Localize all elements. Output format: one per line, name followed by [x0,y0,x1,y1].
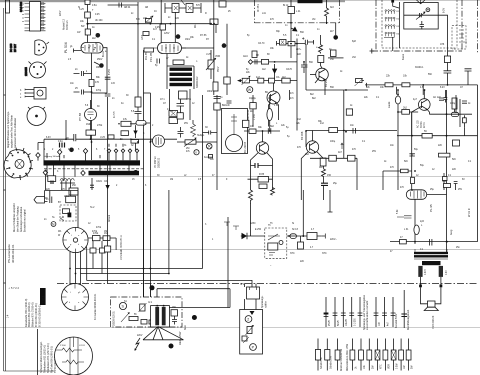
svg-text:BC 238: BC 238 [10,43,13,52]
wire diamond stubs [38,143,86,161]
capacitor C405 [397,216,412,218]
volume coil [395,96,400,104]
wire x357 stub [356,158,358,190]
wire y114 [430,113,473,115]
switch bottom contacts [269,253,275,256]
hang resistor [300,236,302,242]
svg-text:B 310 811 (3030-01): B 310 811 (3030-01) [34,303,38,327]
page border double line left [4,8,6,371]
cap C211 [465,69,472,85]
tuner inner dashed box [382,0,457,48]
mains wedge triangle [143,327,184,340]
osc capacitor [420,21,425,29]
panel small box [242,336,247,341]
svg-text:25µ: 25µ [333,183,338,185]
capacitor C210 [444,71,452,85]
T marks [224,222,239,230]
svg-text:OA81: OA81 [96,180,103,183]
svg-text:OA 70: OA 70 [258,42,265,45]
tiny values text [75,26,100,90]
table lower rotated rows [39,341,57,373]
resistor R111 [210,19,218,24]
svg-text:14 Schaltb. 30300-05.11: 14 Schaltb. 30300-05.11 [120,234,123,260]
wire socket down-left [70,251,81,296]
wire stubs Rj [93,241,102,274]
svg-text:DY 86: DY 86 [200,35,207,37]
ref mark 14 [96,33,101,38]
resistor R303 [249,129,256,133]
wire collector up [321,35,323,68]
test diamond e [81,171,85,176]
winding W1 [288,7,295,14]
resistor on x227 [224,77,230,84]
svg-text:25V: 25V [372,151,377,153]
svg-text:10µ: 10µ [252,98,257,100]
wire x116 [115,238,117,250]
switch arm [268,234,278,240]
circled W [247,87,253,93]
svg-text:1k5: 1k5 [175,17,180,20]
resistor R130 [48,176,56,182]
svg-text:470: 470 [95,81,100,84]
svg-text:für Geräte 30300-019.01: für Geräte 30300-019.01 [94,293,97,320]
capacitor C203 [255,59,257,64]
svg-text:Änderungen vorbehalten.: Änderungen vorbehalten. [20,206,23,232]
diode D201 [291,28,297,31]
wire loop right [157,289,230,308]
legend cap 3 [341,297,348,327]
wire stubs below bar [45,166,64,191]
varactor [416,13,425,20]
legend resistor 6 [367,339,375,371]
svg-text:Ablenk: Ablenk [108,214,111,222]
wire PY88 anode [90,100,92,139]
svg-text:BF 237: BF 237 [14,43,17,52]
wire x412 [411,112,413,190]
svg-text:150: 150 [327,174,332,177]
relay coil [63,209,70,214]
ref mark M2 [133,170,138,175]
legend resistor 4 [350,339,358,371]
relay black slug [68,213,72,218]
node audio [343,130,345,132]
box on damper line [105,246,111,252]
wire x343 [343,90,345,158]
svg-text:BF 458: BF 458 [300,131,304,140]
rotated annotation text column [7,111,17,148]
svg-text:P 300: P 300 [60,345,66,347]
capacitor C124 [203,131,218,135]
wire x383 [382,171,384,190]
svg-text:Si 0.8: Si 0.8 [292,229,299,231]
tube pinout circle B [62,284,89,311]
right border dash-dot [477,0,479,53]
svg-text:Telefunken 871 (2971-01): Telefunken 871 (2971-01) [46,343,50,373]
pot arrow [121,313,129,322]
pcb boundary dashed [44,168,145,170]
tuner oscillator box [404,3,438,30]
svg-text:30300-019.01: 30300-019.01 [11,244,15,263]
channel contacts row3 [385,25,395,29]
resistor R408 [400,240,407,244]
svg-text:AGC: AGC [243,55,248,58]
svg-text:Dieser Schaltplan entspricht: Dieser Schaltplan entspricht [13,203,16,232]
svg-text:Helligk.: Helligk. [197,135,205,137]
resistor R304c [259,184,267,189]
AGC pot row y80.6 [240,80,297,82]
svg-text:5k/25: 5k/25 [338,320,340,326]
diode in panel [250,311,255,315]
long vertical x202 [202,190,204,269]
wire pin stubs [109,144,137,161]
wire cathode down [91,53,93,160]
legend resistor 2 [325,339,333,371]
svg-text:L 31: L 31 [404,229,409,231]
trimmer arrow top [181,0,185,5]
resistor Rj2 [100,248,106,253]
oval fuse [290,234,296,239]
stub above bar [47,153,100,158]
legend cap 8 [391,297,398,328]
selector top box [247,287,260,299]
selector box marks [250,287,257,290]
svg-text:Schwarz-Weiß-Fernsehger.: Schwarz-Weiß-Fernsehger. [39,341,43,373]
svg-text:1200: 1200 [142,34,144,40]
junction row [60,181,75,191]
svg-text:dem Stand der Fertigung.: dem Stand der Fertigung. [17,206,20,232]
resistor R406 [401,169,409,173]
resistor R123b [131,140,139,144]
wire y43.6 [277,39,298,131]
resistor R603 [171,310,178,316]
svg-text:2k2: 2k2 [403,107,408,110]
winding left [418,266,422,277]
capacitor C403 [442,173,446,190]
circled 2 [245,316,252,323]
svg-text:1 Vss: 1 Vss [254,113,256,120]
selector panel [240,310,263,355]
wire grid lead left [74,49,82,53]
fuse box top [85,0,90,5]
svg-text:PL 504: PL 504 [64,42,68,53]
capacitor C103 [74,71,92,76]
vertical x412 lower stub [411,154,413,156]
resistor R502 [92,236,100,241]
wire x306 [305,44,307,90]
svg-text:PL 95: PL 95 [429,204,433,212]
resistor R101 [85,12,91,18]
coil box [318,56,324,63]
contact labels [397,11,400,36]
long vertical x169 [168,190,170,274]
vertical x228 [227,217,229,308]
texture labels quadrant1 [44,4,250,191]
ecap C127 [51,181,53,185]
ref mark 15 [99,63,104,68]
corner dashed box [452,26,466,50]
svg-text:8k2: 8k2 [270,125,275,128]
svg-text:Schicht 5%: Schicht 5% [320,358,323,370]
resistor R407 [411,177,415,183]
wire link [92,92,108,94]
test diamond a2 [58,150,62,155]
svg-text:S 25: S 25 [79,9,84,11]
fold line horizontal upper [0,176,480,178]
wires into box top [144,284,158,298]
svg-text:0.5A: 0.5A [92,4,97,7]
paper edge shading top [0,0,480,2]
bus y135.7 [397,135,478,137]
diode D202 [274,64,276,81]
resistor R202 [288,42,295,46]
svg-text:25µ: 25µ [430,189,435,191]
zigzag R312 [322,166,326,179]
svg-text:180k: 180k [207,91,213,93]
scatter labels upper left [46,5,231,187]
TO-220 package view [20,88,46,100]
switch coil box [268,243,278,250]
wire tube to transformer [166,54,168,67]
legend resistor 9 [391,339,398,371]
selector wires [245,269,257,310]
svg-text:100µ: 100µ [330,141,336,143]
capacitor C123 [177,99,185,113]
legend resistor 3 [335,339,343,372]
svg-text:AT 1: AT 1 [160,98,165,101]
end arrow [321,234,325,239]
speaker cone [424,307,438,310]
svg-text:B 250: B 250 [109,68,111,75]
thermistor R116 [213,82,218,91]
main dash-dot bus [57,283,478,285]
transistor Q5 sync [267,91,280,104]
wire after box [287,235,322,237]
wire x289 [289,90,291,100]
svg-text:Fo 5.5: Fo 5.5 [114,111,116,118]
node boost rail [87,23,89,25]
wire ref stub [335,23,337,35]
coil box right [452,98,457,109]
svg-text:Spannungs- und Toleranzangaben: Spannungs- und Toleranzangaben [363,294,366,330]
vertical wire x150 lower [149,93,151,190]
long vertical x150 [149,190,151,297]
svg-text:470p: 470p [96,90,102,92]
svg-text:U 25: U 25 [206,54,212,56]
resistor R110 [160,24,166,30]
wire bus y139 [44,138,177,140]
svg-text:St 1: St 1 [240,283,245,286]
tiny values [44,110,208,158]
resistor R103 [89,80,94,87]
wire x66 [65,120,67,139]
transistor pinout view Q-b [29,62,47,79]
corner box top right [219,1,226,7]
black model label [40,288,46,305]
svg-text:U 191: U 191 [79,345,86,347]
node [296,43,298,45]
diode D120 [135,128,137,138]
svg-text:220: 220 [143,17,148,20]
tube socket top view [4,148,33,180]
wire emitter down [315,78,325,95]
socket pin labels [70,235,80,246]
winding bar right [162,307,166,326]
box lower [69,188,78,195]
svg-text:250V: 250V [97,59,103,61]
node [447,84,449,86]
resistor R206c [282,78,290,83]
wire varistor [210,50,212,79]
transistor Q4 audio [419,99,431,111]
ecap C305 [321,183,328,185]
wire coil [269,95,271,131]
svg-text:220V: 220V [60,10,62,16]
svg-text:0.5W: 0.5W [397,363,399,369]
svg-text:RG: RG [195,24,197,28]
scatter labels upper right [246,13,472,191]
wire boost right end [215,24,217,33]
relay zigzag [60,216,63,221]
capacitor C301 [268,128,271,134]
svg-text:Bildrohr: Bildrohr [222,104,230,107]
zigzag x250 [249,190,253,204]
connector plug [34,197,48,204]
resistor Rj1 [90,248,96,253]
fold line horizontal lower [0,327,480,329]
svg-text:Telefunken 811 (2021-0): Telefunken 811 (2021-0) [43,345,47,373]
svg-text:0.3A: 0.3A [58,140,63,143]
legend resistor 7 [375,339,382,371]
long vertical x143 [143,190,145,297]
resistor R115 [173,60,184,65]
scatter labels lower [44,209,461,267]
wire x138 [118,119,150,151]
resistor R113 [143,32,149,36]
corner box marks [459,30,467,42]
svg-text:16kV: 16kV [185,39,191,41]
svg-text:NTC: NTC [381,364,383,369]
resistor R302 [243,120,249,127]
resistor R122 [121,121,131,126]
zigzag collector feed [319,45,323,54]
wire Q2 legs [301,152,322,201]
svg-text:Gl 1: Gl 1 [148,302,153,304]
capacitor C501 [50,197,52,204]
svg-text:W 31 R: W 31 R [467,208,471,217]
svg-text:4k7: 4k7 [338,151,343,154]
svg-text:350V: 350V [218,66,220,72]
capacitor C110 [119,3,122,8]
wire vertical x161 [160,0,162,43]
svg-text:Ub 230: Ub 230 [95,20,103,22]
border tick marks [4,95,6,283]
tube PL95 [406,190,426,200]
svg-text:25V: 25V [458,189,463,191]
rotated text PS-Leiterseite [7,244,15,263]
resistor R206a [258,78,264,83]
capacitor C303 [353,128,356,134]
svg-text:L 52: L 52 [274,105,279,107]
coil L401 [414,225,419,235]
resistor R601 [307,233,317,240]
svg-text:0.43: 0.43 [446,270,448,275]
lightning bolt [135,338,140,350]
tiny text [250,125,343,177]
AGC diamond [248,60,252,65]
svg-text:470k: 470k [186,99,192,101]
resistor R210 [444,56,450,63]
wire B+ vertical feed [87,0,89,43]
svg-text:22.31: 22.31 [424,122,426,128]
zigzag resistor R201 [325,3,329,24]
legend resistor 5 [359,339,366,371]
pot R205 [242,76,251,85]
capacitor C121 [135,107,142,119]
legend resistor 8 [383,339,391,371]
svg-text:OA: OA [104,180,108,183]
channel contacts row4 [384,32,395,37]
audio bus y130.5 [306,130,397,132]
wire y93 stub [144,92,151,94]
resistor R123 [121,131,129,136]
svg-text:470k: 470k [96,227,102,229]
heater circle C [55,337,93,375]
vertical wire x217 [216,95,218,190]
wire IF vertical [290,0,292,58]
box below lamp [209,155,213,159]
plus sign [302,37,304,39]
speaker body [428,301,436,307]
alignment head circle [27,107,46,126]
node base [262,130,264,132]
zigzag resistor R125 [191,124,196,137]
power dash-dot box [111,297,182,327]
svg-text:wähler: wähler [265,301,268,308]
ref mark M [69,148,74,153]
wire Q5 legs [269,83,279,127]
node bus [90,138,92,140]
wire Q2 base [305,131,307,148]
resistor mid-right [453,140,460,146]
svg-text:AC 122: AC 122 [433,96,441,99]
oval resistor R123c [136,121,146,126]
small parts [141,320,147,325]
svg-text:E 250: E 250 [255,229,262,231]
svg-text:25/25: 25/25 [329,320,331,326]
wire x323 bottom [323,179,325,201]
emitter chain R311 [320,158,326,166]
resistor R401 [402,110,410,115]
capacitor C122 [178,127,184,138]
resistor R124 [177,113,183,119]
bus y273 [80,273,169,275]
resistor R602 [129,317,138,321]
wire base [398,111,418,113]
detector cluster [277,40,287,46]
svg-text:0.1/250: 0.1/250 [355,318,357,326]
svg-text:Lautst.: Lautst. [388,101,391,108]
wire Q1 legs [251,153,273,237]
svg-text:W: W [248,88,251,92]
AGC wire to tuner [368,84,472,86]
transistor Q-BF237 [310,68,328,81]
svg-text:⊥ 5 7 2 2: ⊥ 5 7 2 2 [8,286,19,290]
mains diode D601 [241,235,265,237]
legend cap 9 [401,290,410,330]
svg-text:BY: BY [58,201,62,204]
resistor R404 [422,134,432,139]
AGC long wire [306,89,368,91]
